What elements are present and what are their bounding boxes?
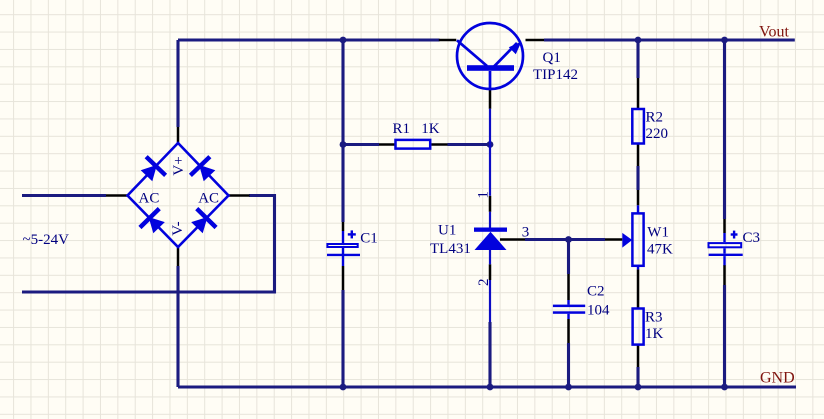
svg-text:TIP142: TIP142 bbox=[533, 67, 578, 83]
svg-text:W1: W1 bbox=[647, 224, 669, 240]
svg-text:C3: C3 bbox=[743, 230, 761, 246]
svg-text:V-: V- bbox=[170, 221, 186, 235]
svg-text:220: 220 bbox=[646, 126, 669, 142]
svg-text:Q1: Q1 bbox=[543, 50, 561, 66]
svg-text:104: 104 bbox=[587, 303, 610, 319]
svg-text:1K: 1K bbox=[645, 326, 664, 342]
svg-text:~5-24V: ~5-24V bbox=[23, 232, 70, 248]
svg-text:C2: C2 bbox=[587, 283, 605, 299]
svg-text:1K: 1K bbox=[421, 121, 440, 137]
svg-text:AC: AC bbox=[139, 190, 160, 206]
svg-text:C1: C1 bbox=[360, 231, 378, 247]
svg-text:3: 3 bbox=[522, 225, 530, 241]
svg-text:AC: AC bbox=[198, 190, 219, 206]
svg-text:R2: R2 bbox=[646, 110, 664, 126]
svg-text:TL431: TL431 bbox=[430, 241, 471, 257]
svg-text:Vout: Vout bbox=[759, 24, 789, 41]
svg-text:V+: V+ bbox=[171, 156, 187, 175]
svg-text:GND: GND bbox=[760, 370, 795, 387]
svg-text:47K: 47K bbox=[647, 241, 673, 257]
svg-text:R3: R3 bbox=[645, 310, 663, 326]
svg-text:U1: U1 bbox=[438, 223, 456, 239]
svg-text:R1: R1 bbox=[393, 121, 411, 137]
